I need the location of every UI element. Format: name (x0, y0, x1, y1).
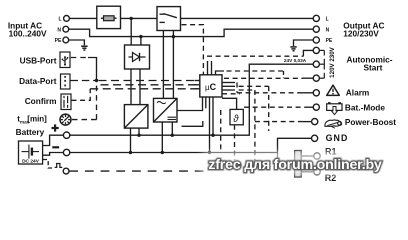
svg-text:µC: µC (205, 82, 217, 92)
watermark halo (198, 151, 390, 176)
wire charger to 24V rail (171, 122, 173, 135)
rectifier D1 (125, 45, 150, 69)
wire rectifier to converter right (139, 69, 141, 105)
terminal R2 (314, 169, 320, 175)
microcontroller U1 (200, 75, 222, 97)
microcontroller right pin 1 (222, 82, 230, 84)
wire converter to 0V rail (130, 128, 132, 152)
wire A3 lead (303, 77, 313, 79)
minus symbol battery (52, 146, 59, 148)
wire timer to bus (72, 119, 97, 121)
svg-text:DC 24V: DC 24V (22, 159, 40, 165)
microcontroller right pin 2 (222, 85, 230, 87)
wire uC top hook (216, 71, 225, 75)
wire data port to bus node (71, 80, 97, 82)
terminal L output (313, 15, 319, 21)
switch S1 (157, 7, 181, 31)
wire USB port elbow (88, 58, 97, 80)
battery BT1 (19, 141, 43, 165)
wire L input to fuse (69, 17, 96, 19)
wire A1 lead (303, 50, 313, 56)
wire charger to 0V rail (161, 122, 163, 153)
node 24V charger (171, 134, 174, 137)
ground input PE (81, 46, 87, 50)
terminal PE input (63, 37, 69, 43)
node 24V converter (137, 134, 140, 137)
wire uC to temperature sensor (222, 98, 237, 109)
terminal R1 (314, 153, 320, 159)
relay contact K1 (278, 151, 314, 178)
svg-text:zfrec для forum.onliner.by: zfrec для forum.onliner.by (208, 157, 382, 173)
wire L tap down to rectifier (130, 18, 132, 45)
microcontroller bottom pin 1 (202, 97, 204, 108)
power boost icon (325, 120, 342, 128)
wire PE output to ground (294, 40, 314, 46)
svg-text:120V 230V: 120V 230V (329, 46, 336, 77)
terminal PE output (313, 37, 319, 43)
node 0V uC (208, 151, 211, 154)
terminal autonomic A3 (313, 75, 319, 81)
battery mode icon (327, 103, 342, 115)
wire 0V rail (70, 152, 278, 154)
node communication bus (95, 79, 98, 82)
svg-text:GND: GND (326, 133, 349, 143)
node 0V converter (129, 151, 132, 154)
fuse F1 (97, 6, 121, 28)
terminal power boost (312, 119, 318, 125)
microcontroller bottom pin 2 (205, 97, 207, 108)
terminal L input (64, 16, 70, 22)
wire switch to charger left (162, 31, 164, 99)
svg-text:ϑ: ϑ (233, 114, 239, 125)
svg-text:PE: PE (326, 38, 333, 44)
svg-text:Power-Boost: Power-Boost (345, 117, 396, 127)
alarm warning triangle icon (327, 85, 340, 95)
wire N rail (69, 29, 314, 36)
bracket autonomic terminals (320, 50, 325, 78)
wire battery minus (43, 153, 64, 156)
svg-text:Alarm: Alarm (346, 88, 370, 98)
battery start pulse icon (55, 164, 63, 168)
wire L switch to output (181, 17, 314, 19)
svg-text:N: N (326, 27, 330, 33)
terminal N output (313, 26, 319, 32)
timer clock icon (60, 114, 71, 125)
wire battery mode dashed (230, 86, 305, 131)
wire switch control dashed (182, 25, 204, 75)
wire charger aux output (177, 108, 203, 110)
node 24V uC (211, 134, 214, 137)
wire A3 dashed from uC (224, 77, 303, 79)
terminal GND (312, 135, 318, 141)
svg-text:N: N (57, 27, 61, 33)
temperature sensor ϑ (230, 109, 243, 124)
node N to charger (172, 35, 175, 38)
label tmax[min] (17, 115, 47, 125)
svg-text:Battery: Battery (16, 127, 45, 137)
wire timer elbow up (96, 82, 98, 120)
wire GND from 0V rail (278, 138, 312, 163)
microcontroller top pin 3 (211, 61, 213, 75)
label Output AC 120/230V (343, 21, 384, 39)
label Input AC 100..240V (8, 20, 47, 38)
wire alarm dashed (230, 83, 302, 93)
wire uC aux dashed riser (220, 110, 222, 153)
node N to rectifier (139, 35, 142, 38)
wire confirm to bus (72, 89, 91, 101)
terminal battery start (63, 168, 69, 174)
wire USB port to bus (71, 57, 88, 59)
wire battery start dashed (43, 160, 54, 169)
svg-text:Data-Port: Data-Port (19, 76, 57, 86)
terminal battery mode (313, 104, 319, 110)
wire PE input to ground (69, 40, 85, 45)
wire 24V rail (70, 64, 313, 135)
node L junction (130, 17, 133, 20)
wire temperature sensor down dashed (234, 125, 236, 160)
terminal battery plus (63, 132, 69, 138)
wire rectifier to converter left (130, 69, 132, 105)
data port icon (61, 74, 71, 89)
DC/DC converter U2 (124, 105, 147, 129)
microcontroller right pin 4 (222, 93, 240, 95)
wire power boost dashed (230, 90, 303, 160)
wire battery plus (43, 135, 64, 145)
wire charger aux lower (182, 121, 203, 126)
terminal N input (63, 26, 69, 32)
AC/DC charger U3 (154, 98, 178, 122)
plus symbol battery (52, 124, 59, 131)
svg-text:Confirm: Confirm (25, 96, 57, 106)
terminal autonomic A2 (313, 61, 319, 67)
microcontroller bottom pin 4 to 24V (212, 97, 214, 135)
watermark text (208, 157, 382, 173)
communication bus line 3 (90, 88, 200, 90)
communication bus line 2 (101, 84, 200, 86)
microcontroller right pin 3 (222, 89, 230, 91)
svg-text:24V 0,03A: 24V 0,03A (284, 58, 307, 63)
ground output PE (290, 47, 296, 51)
svg-text:100..240V: 100..240V (9, 28, 47, 38)
terminal alarm (313, 90, 319, 96)
confirm DIP switch icon (61, 94, 71, 110)
USB port icon (60, 52, 70, 68)
wire battery start line dashed (69, 170, 207, 172)
wire hook riser dashed (283, 71, 285, 78)
svg-text:USB-Port: USB-Port (20, 56, 57, 66)
microcontroller bottom pin 3 to 0V (209, 97, 211, 153)
wire N tap down to rectifier (140, 37, 142, 45)
microcontroller top pin 2 (207, 61, 209, 75)
wire switch to charger right (172, 31, 174, 99)
svg-text:[min]: [min] (27, 115, 47, 124)
node 0V charger (161, 151, 164, 154)
communication bus line 1 (99, 80, 200, 82)
svg-text:L: L (326, 17, 329, 23)
label Autonomic-Start (346, 54, 392, 72)
svg-text:L: L (58, 17, 61, 23)
terminal autonomic A1 (313, 47, 319, 53)
wire uC hook line dashed (227, 70, 284, 72)
wire L fuse to switch (121, 17, 158, 19)
svg-text:Bat.-Mode: Bat.-Mode (345, 103, 385, 113)
svg-text:Start: Start (363, 62, 382, 72)
svg-text:PE: PE (55, 38, 62, 44)
wire converter to 24V rail (138, 128, 140, 135)
autonomic start dashed line from switch (207, 55, 303, 57)
microcontroller left pin stubs (195, 81, 200, 89)
terminal battery minus (63, 149, 69, 155)
svg-text:120/230V: 120/230V (343, 29, 379, 39)
